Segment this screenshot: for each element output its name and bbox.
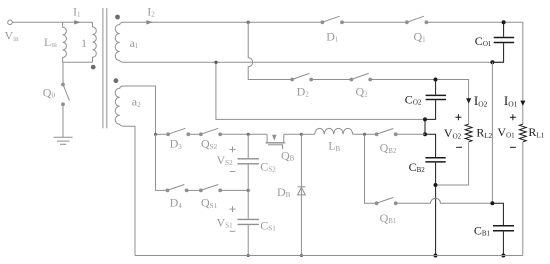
- wire DB node to LB: [301, 133, 314, 135]
- wire RL2 bottom to CB2 node: [436, 142, 469, 185]
- capacitor CS1: [247, 190, 249, 218]
- svg-text:VO2: VO2: [444, 126, 462, 140]
- node CB2 / RL2 bottom: [434, 183, 438, 187]
- switch Q1: [406, 21, 409, 24]
- node Co2 top: [434, 78, 438, 82]
- svg-text:LB: LB: [328, 139, 340, 153]
- switch QB1: [375, 202, 378, 205]
- svg-text:CS1: CS1: [260, 218, 276, 232]
- wire rail from Co1 bottom down to CB1 row: [491, 62, 493, 203]
- wire QS2 to QB drain: [222, 133, 268, 135]
- node CS2 top: [247, 133, 250, 136]
- svg-text:D1: D1: [326, 30, 339, 44]
- svg-text:I2: I2: [147, 4, 155, 18]
- switch Q0: [62, 83, 65, 86]
- polarity dot a1: [115, 15, 120, 20]
- wire node to CB2 top: [425, 134, 436, 157]
- resistor RL1: [519, 124, 526, 142]
- wire link down to QB2 row node: [424, 119, 426, 134]
- svg-text:DB: DB: [277, 185, 291, 199]
- diode DB: [300, 134, 302, 255]
- svg-text:I1: I1: [73, 4, 81, 18]
- inductor LB: [315, 128, 353, 134]
- transformer core: [102, 8, 104, 128]
- mosfet QB: [266, 134, 268, 142]
- wire CB2 bottom to ground rail: [435, 163, 437, 256]
- wire QB1 to CB1 with hop over CB2 line: [397, 198, 492, 203]
- capacitor CS2: [247, 134, 249, 158]
- svg-text:Q0: Q0: [43, 85, 56, 99]
- svg-text:QB2: QB2: [380, 141, 397, 155]
- node CS1 bottom on rail: [247, 254, 250, 257]
- wire Q1 to top-right corner, right output rail with RL1: [428, 22, 523, 124]
- wire QS1 to CS node: [222, 189, 249, 191]
- current arrow I1: [74, 20, 81, 24]
- svg-text:CO1: CO1: [475, 34, 492, 48]
- svg-text:Lm: Lm: [44, 35, 57, 49]
- svg-text:QB1: QB1: [380, 211, 397, 225]
- svg-text:a2: a2: [132, 95, 141, 109]
- svg-text:D3: D3: [170, 137, 183, 151]
- svg-text:IO1: IO1: [504, 93, 518, 108]
- node Co2 bottom: [423, 117, 427, 121]
- svg-text:D2: D2: [297, 85, 310, 99]
- wire a1-bottom node down and across to Co2 bottom: [216, 62, 425, 119]
- node CB2 bottom on rail: [434, 254, 438, 258]
- svg-text:RL1: RL1: [528, 125, 544, 139]
- wire RL1 bottom to ground rail: [522, 142, 524, 256]
- svg-text:a1: a1: [130, 36, 139, 50]
- svg-text:QS2: QS2: [201, 137, 218, 151]
- wire CB1 bottom to rail: [502, 232, 504, 256]
- switch D3: [167, 133, 170, 136]
- current arrow Io1: [520, 101, 525, 106]
- inductor Lm: [63, 22, 67, 62]
- wire QB2 to CB2 node: [397, 133, 425, 135]
- node DB bottom on rail: [300, 254, 303, 257]
- ground: [54, 136, 73, 138]
- svg-text:Q2: Q2: [356, 85, 369, 99]
- wire top-left from Vin to primary corner: [12, 21, 92, 23]
- row D3 QS2 QB LB QB2: left column: [156, 133, 169, 135]
- svg-text:1: 1: [81, 36, 87, 50]
- svg-text:QB: QB: [281, 149, 295, 163]
- node CS2 bottom / CS1 top: [247, 189, 250, 192]
- wire LB to QB2 node: [353, 133, 377, 135]
- wire Co2 leads: [435, 80, 437, 95]
- switch QS1: [200, 189, 203, 192]
- current arrow I2: [146, 20, 153, 24]
- wire a2 bottom to ground rail: [124, 126, 136, 255]
- switch Q2: [350, 78, 353, 81]
- wire D3 column down to D4 row: [156, 134, 168, 190]
- svg-text:RL2: RL2: [476, 126, 492, 140]
- node CB1 top rail junction: [490, 201, 494, 205]
- wire D1 to Q1: [343, 21, 407, 23]
- resistor RL2: [465, 124, 472, 142]
- svg-text:CO2: CO2: [405, 93, 422, 107]
- svg-text:CB2: CB2: [409, 160, 426, 174]
- svg-text:CS2: CS2: [260, 159, 276, 173]
- wire secondary top rail: [124, 21, 323, 23]
- switch QS2: [200, 133, 203, 136]
- svg-text:Vin: Vin: [5, 29, 20, 43]
- node Co1 top: [502, 20, 506, 24]
- switch QB2: [375, 133, 378, 136]
- wire Co1 leads: [503, 22, 505, 36]
- capacitor Co1: [494, 38, 515, 43]
- wire Q0 branch: [62, 62, 64, 84]
- wire QB source to DB node: [284, 133, 302, 135]
- wire a2 top to D3 column: [124, 86, 156, 134]
- capacitor CB1: [493, 226, 514, 231]
- node LB / QB2 / QB1: [363, 133, 366, 136]
- svg-text:IO2: IO2: [474, 93, 488, 108]
- svg-text:D4: D4: [170, 196, 183, 210]
- svg-text:QS1: QS1: [201, 196, 218, 210]
- transformer primary winding (1): [93, 22, 97, 62]
- polarity dot a2: [114, 78, 119, 83]
- node CB1 bottom on rail: [501, 254, 505, 258]
- node Co1 bottom / rail to CB1: [490, 60, 494, 64]
- ground rail bottom: [135, 255, 523, 257]
- capacitor CB2: [425, 158, 445, 162]
- current arrow Io2: [466, 98, 471, 103]
- secondary winding a1: [115, 22, 123, 62]
- switch D1: [321, 21, 324, 24]
- wire drop with hop over a1-bottom wire: [248, 22, 292, 79]
- capacitor Co2: [426, 95, 446, 99]
- node DB top: [300, 133, 303, 136]
- wire D4 to QS1: [188, 189, 201, 191]
- node D3 column: [154, 133, 157, 136]
- node a1-bottom junction: [214, 61, 217, 64]
- wire a1 bottom long wire to Co1: [124, 61, 504, 63]
- switch D4: [166, 189, 169, 192]
- switch D2: [291, 78, 294, 81]
- wire QB1 branch from LB node: [365, 134, 377, 203]
- svg-text:VS1: VS1: [217, 215, 234, 229]
- svg-text:VO1: VO1: [497, 125, 515, 139]
- secondary winding a2: [115, 86, 123, 126]
- wire D3 to QS2: [190, 133, 201, 135]
- svg-text:VS2: VS2: [217, 153, 234, 167]
- node QB2 row meets CB2: [423, 132, 427, 136]
- wire primary bottom: [63, 61, 93, 63]
- wire Q2 to Io2 corner: [372, 80, 469, 125]
- input terminal Vin: [8, 20, 13, 25]
- wire Q0 to ground: [62, 106, 64, 137]
- node junction on top wire (drop to D2 row): [247, 21, 250, 24]
- svg-text:CB1: CB1: [474, 223, 491, 237]
- svg-text:Q1: Q1: [414, 30, 427, 44]
- polarity dot primary: [91, 65, 96, 70]
- wire D2 to Q2: [313, 79, 352, 81]
